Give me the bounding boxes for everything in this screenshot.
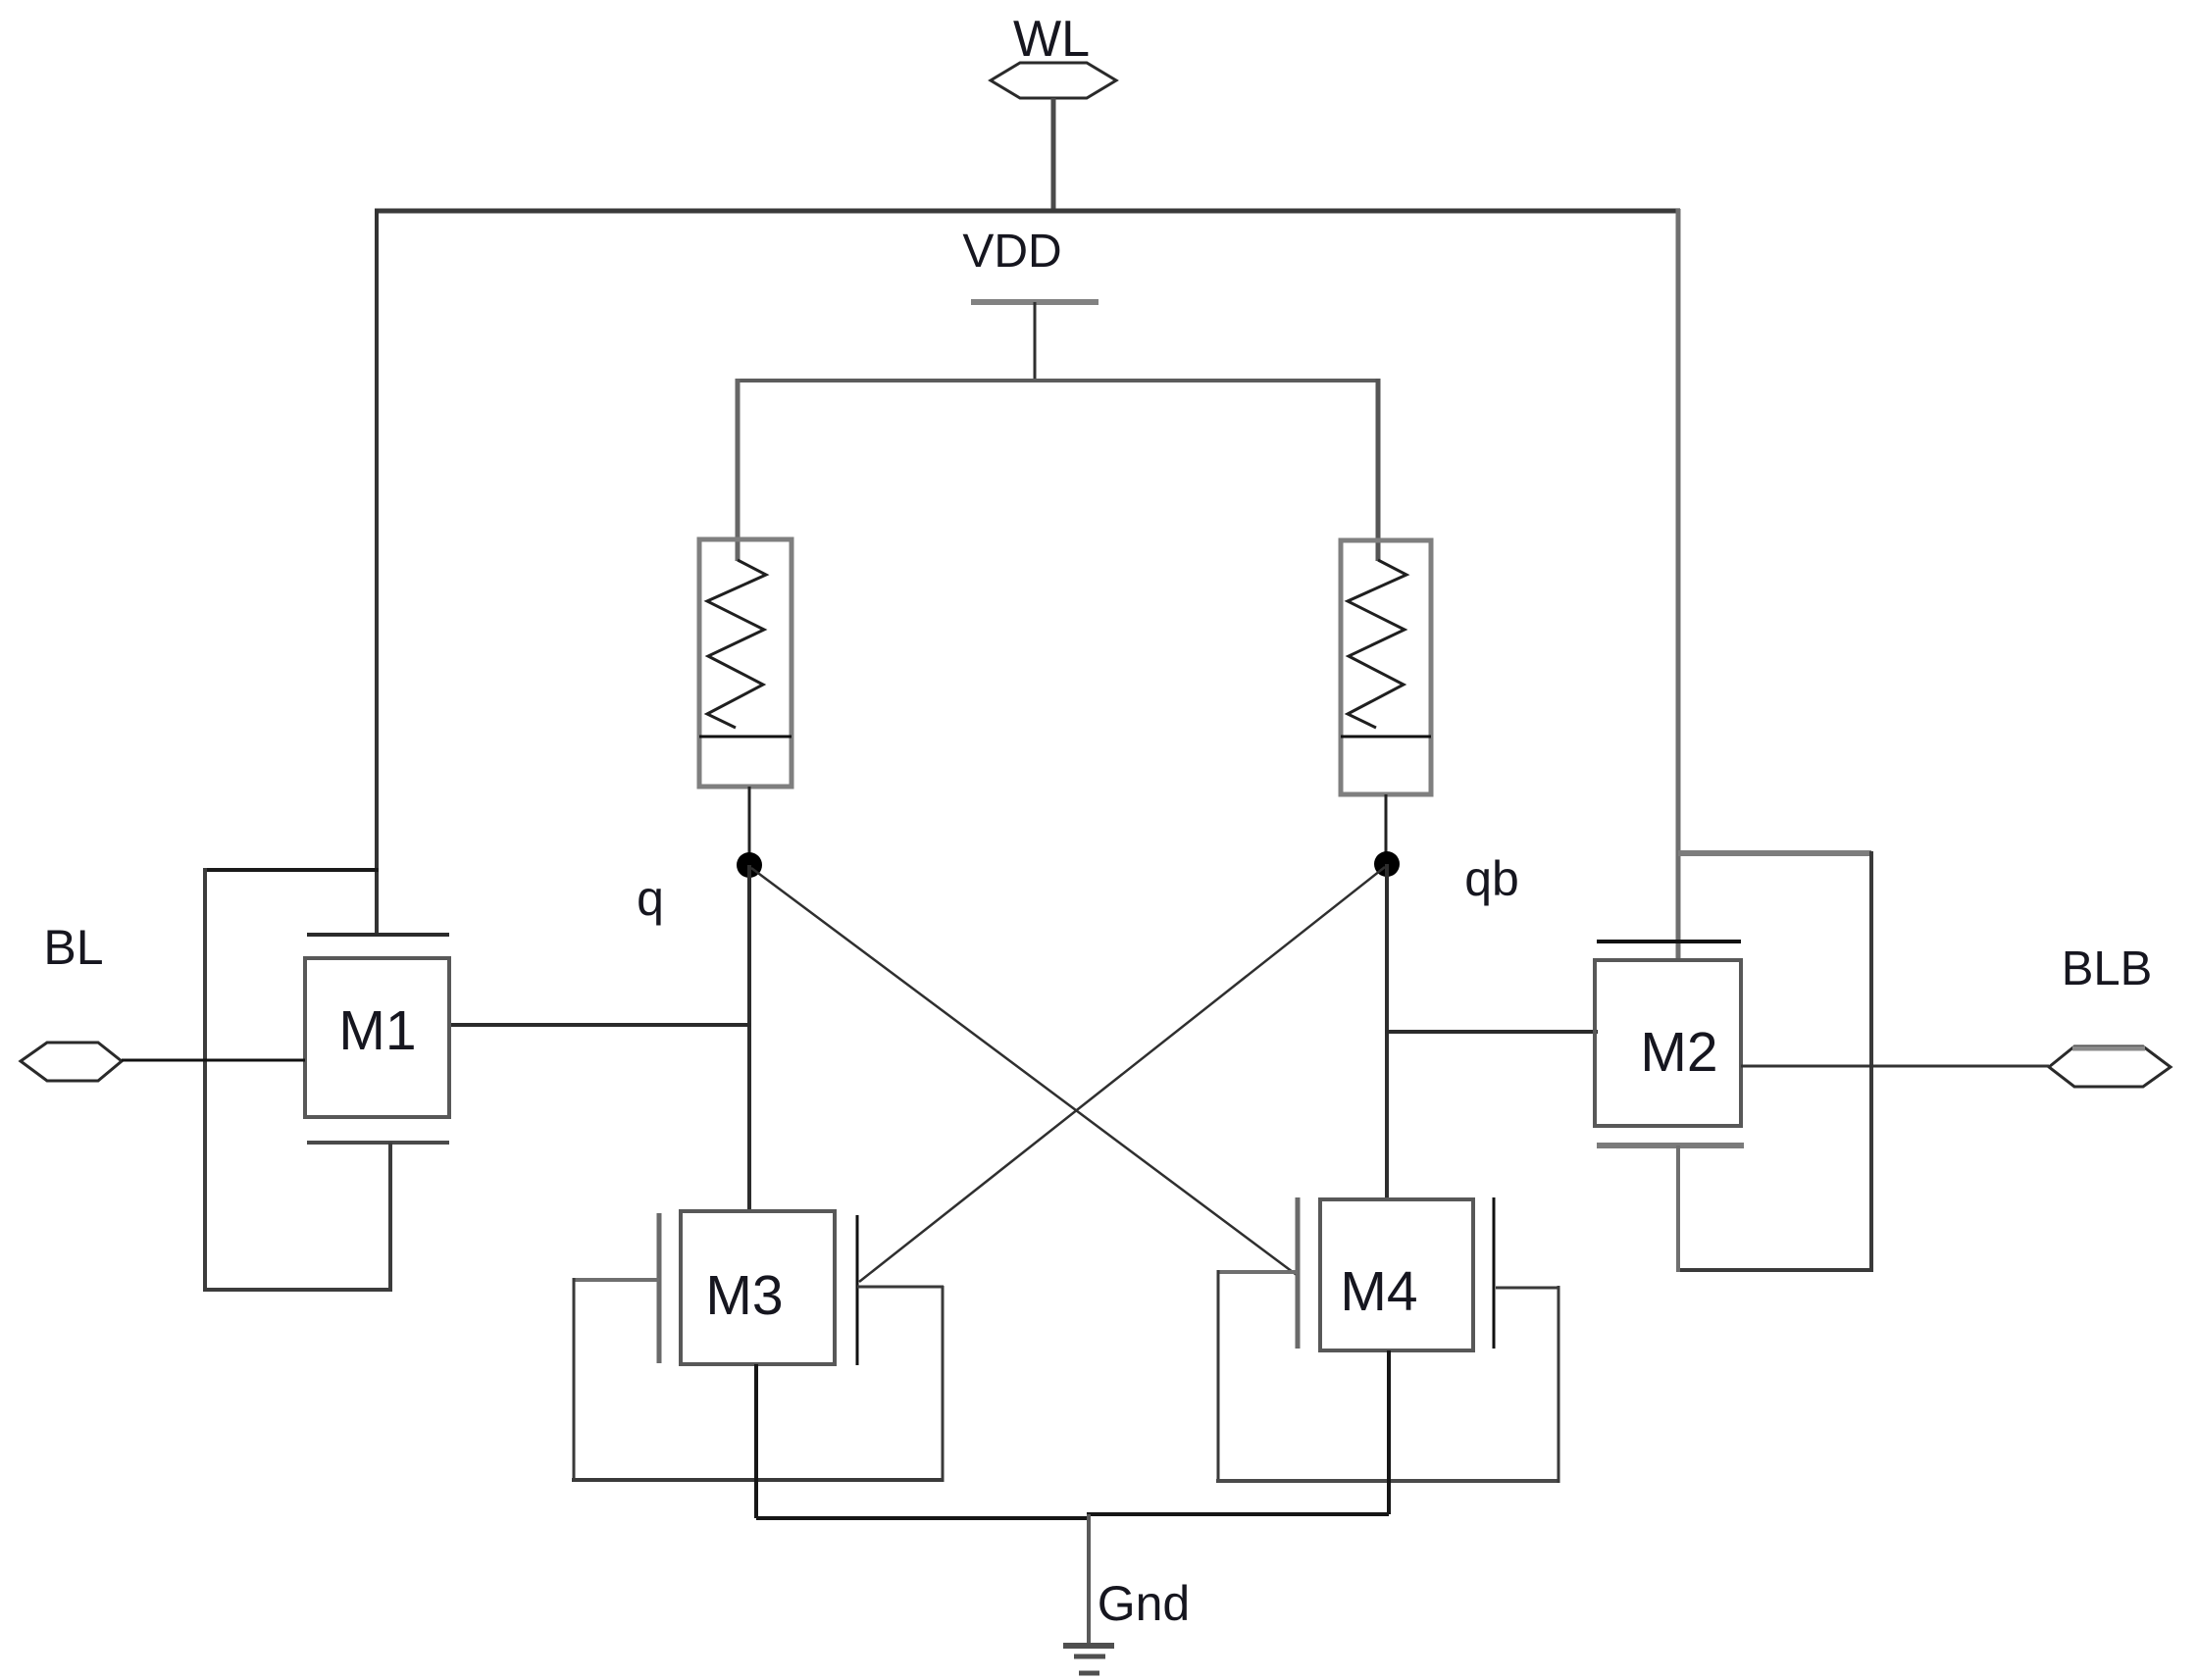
svg-text:BL: BL — [43, 920, 103, 975]
transistor M1 back gate plate — [307, 1141, 449, 1145]
wire ground rail left — [756, 1516, 1091, 1520]
wire R1 to node q — [748, 787, 751, 865]
wire M4 gate tie left stub — [1218, 1270, 1298, 1274]
resistor R2 body — [1341, 540, 1431, 794]
wire M2 gate tie top — [1678, 850, 1871, 856]
wire M2 gate tie right — [1869, 851, 1873, 1272]
wire M3 gate tie left stub — [574, 1278, 659, 1282]
wire M4 gate tie left vertical — [1217, 1270, 1220, 1481]
wire M1 drain to node q — [449, 1023, 751, 1027]
wire M3 source down — [754, 1364, 758, 1518]
svg-text:M1: M1 — [338, 999, 416, 1062]
node q junction dot — [737, 852, 762, 878]
port BLB top edge highlight — [2072, 1046, 2145, 1051]
wire VDD to R1 — [736, 379, 741, 561]
wire VDD stem — [1034, 302, 1037, 381]
wire M1 gate tie bottom — [203, 1288, 390, 1292]
wire qb to M2 drain — [1385, 1030, 1598, 1034]
wire ground rail right — [1087, 1512, 1389, 1516]
power VDD bar — [971, 299, 1098, 305]
resistor R1 lower plate line — [699, 736, 792, 738]
ground symbol — [1063, 1646, 1114, 1673]
svg-text:BLB: BLB — [2062, 942, 2153, 995]
transistor M4 back gate plate — [1493, 1197, 1496, 1349]
wire BL to M1 source — [122, 1059, 305, 1062]
wire R2 to node qb — [1385, 794, 1388, 864]
transistor M3 front gate plate — [657, 1213, 662, 1363]
transistor M1 body box — [305, 958, 449, 1117]
wire M2 gate tie bottom — [1676, 1268, 1873, 1272]
wire M4 source down — [1387, 1350, 1391, 1514]
wire M3 gate tie right vertical — [942, 1286, 945, 1482]
wire M4 gate tie right stub — [1496, 1287, 1559, 1290]
wire M1 gate tie right — [388, 1143, 392, 1292]
wire WL right vertical to M2 gate — [1676, 209, 1681, 960]
svg-text:M2: M2 — [1640, 1021, 1717, 1084]
wire WL left vertical to M1 gate — [375, 209, 379, 933]
svg-text:WL: WL — [1013, 11, 1090, 68]
wire M1 gate tie left — [203, 868, 207, 1290]
wire M2 gate tie left — [1676, 1145, 1680, 1272]
node qb junction dot — [1374, 851, 1400, 877]
wire qb to M4 drain — [1385, 864, 1389, 1201]
transistor M1 gate plate — [307, 933, 449, 937]
svg-text:M3: M3 — [705, 1264, 783, 1327]
svg-text:Gnd: Gnd — [1098, 1576, 1191, 1631]
transistor M2 back gate plate — [1597, 1143, 1744, 1148]
wire WL stem — [1051, 98, 1056, 213]
port BLB — [2049, 1046, 2171, 1087]
wire M3 gate tie left vertical — [573, 1278, 576, 1480]
wire M1 gate tie top — [205, 868, 379, 872]
wire cross-couple q to M4 gate — [751, 868, 1297, 1275]
wire WL rail — [375, 209, 1680, 214]
resistor R2 zigzag — [1348, 560, 1406, 728]
port BL — [21, 1043, 122, 1081]
transistor M4 body box — [1320, 1199, 1473, 1350]
transistor M4 front gate plate — [1296, 1197, 1301, 1349]
resistor R1 body — [699, 539, 792, 787]
wire ground stem — [1087, 1514, 1091, 1646]
svg-text:qb: qb — [1464, 851, 1519, 906]
wire cross-couple qb to M3 gate — [859, 867, 1385, 1282]
wire VDD to R2 — [1376, 379, 1381, 561]
resistor R1 zigzag — [707, 560, 766, 728]
wire VDD rail — [738, 379, 1378, 382]
transistor M2 gate plate — [1597, 940, 1741, 943]
transistor M3 back gate plate — [856, 1215, 859, 1365]
wire M4 gate tie right vertical — [1558, 1286, 1560, 1483]
svg-text:q: q — [637, 871, 664, 926]
wire M2 source to BLB — [1741, 1065, 2049, 1068]
wire M3 gate tie right stub — [857, 1286, 944, 1289]
port WL — [991, 63, 1116, 98]
transistor M2 body box — [1595, 960, 1741, 1126]
transistor M3 body box — [681, 1211, 835, 1364]
svg-text:VDD: VDD — [962, 226, 1061, 278]
wire M3 gate tie bottom — [572, 1478, 944, 1482]
resistor R2 lower plate line — [1341, 736, 1431, 738]
svg-text:M4: M4 — [1340, 1260, 1417, 1323]
wire q to M3 drain — [747, 865, 751, 1213]
wire M4 gate tie bottom — [1216, 1479, 1559, 1483]
